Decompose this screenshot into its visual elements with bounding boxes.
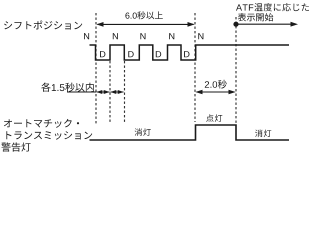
measurement arrow: 2.0s span: [197, 91, 235, 93]
label: D position 1: [100, 51, 105, 57]
label: lit (点灯): [206, 114, 222, 122]
label: N position 5: [198, 33, 203, 39]
label: shift position (シフトポジション): [4, 21, 82, 30]
guide dashed line 5 (lamp off / display start): [235, 17, 237, 124]
label: transmission (トランスミッション): [6, 131, 92, 140]
leader line for 1.5s label: [67, 91, 96, 93]
guide dashed line 3 (N-to-D shift): [124, 61, 126, 123]
label: off (消灯) left: [135, 128, 151, 136]
label: N position 2: [113, 33, 118, 39]
label: warning lamp (警告灯): [1, 142, 30, 151]
label: D position 4: [184, 51, 189, 57]
label: automatic (オートマチック・): [4, 119, 79, 128]
measurement arrow: 1.5s span a: [97, 91, 110, 93]
measurement arrow: 6.0s span: [98, 23, 194, 25]
label: 6.0 sec or more (6.0秒以上): [125, 11, 162, 19]
label: D position 2: [128, 51, 133, 57]
label: N position 3: [140, 33, 145, 39]
wire: shift position N/D square waveform: [90, 45, 290, 60]
measurement arrow: 1.5s span b: [111, 91, 124, 93]
guide dashed line 2 (D-to-N shift): [109, 61, 111, 123]
guide dashed line 1 (first N-to-D shift): [95, 13, 97, 125]
label: display start (表示開始): [238, 13, 273, 21]
label: 2.0s (2.0秒): [205, 80, 227, 89]
label: within 1.5s each (各1.5秒以内): [41, 83, 94, 92]
arrow: display start onward: [236, 23, 291, 25]
guide dashed line 4 (last shift / lamp on): [194, 13, 196, 122]
node dot: display start point: [233, 22, 238, 27]
label: N position 1: [84, 33, 89, 39]
label: off (消灯) right: [255, 130, 271, 138]
wire: warning lamp waveform (off-on-off): [90, 125, 290, 140]
label: N position 4: [169, 33, 174, 39]
label: ATF temperature dependent (ATF温度に応じた): [236, 3, 309, 11]
label: D position 3: [156, 51, 161, 57]
